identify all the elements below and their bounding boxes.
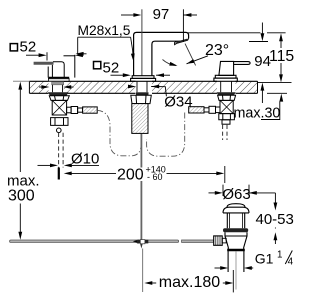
- svg-text:4: 4: [288, 256, 294, 267]
- svg-text:115: 115: [269, 48, 294, 65]
- svg-text:97: 97: [153, 6, 170, 23]
- svg-text:M28x1,5: M28x1,5: [78, 23, 131, 38]
- svg-text:Ø10: Ø10: [71, 150, 99, 167]
- svg-text:200: 200: [117, 167, 144, 184]
- svg-text:max.30: max.30: [234, 105, 281, 121]
- svg-text:max.180: max.180: [159, 274, 220, 291]
- svg-text:40-53: 40-53: [256, 211, 294, 228]
- svg-text:1: 1: [277, 250, 282, 261]
- svg-text:G1: G1: [255, 250, 274, 266]
- svg-text:23°: 23°: [205, 42, 229, 59]
- svg-text:300: 300: [8, 188, 35, 205]
- svg-text:Ø63: Ø63: [222, 186, 250, 203]
- svg-text:52: 52: [103, 59, 120, 76]
- svg-text:- 60: - 60: [147, 172, 163, 182]
- svg-text:52: 52: [20, 38, 37, 55]
